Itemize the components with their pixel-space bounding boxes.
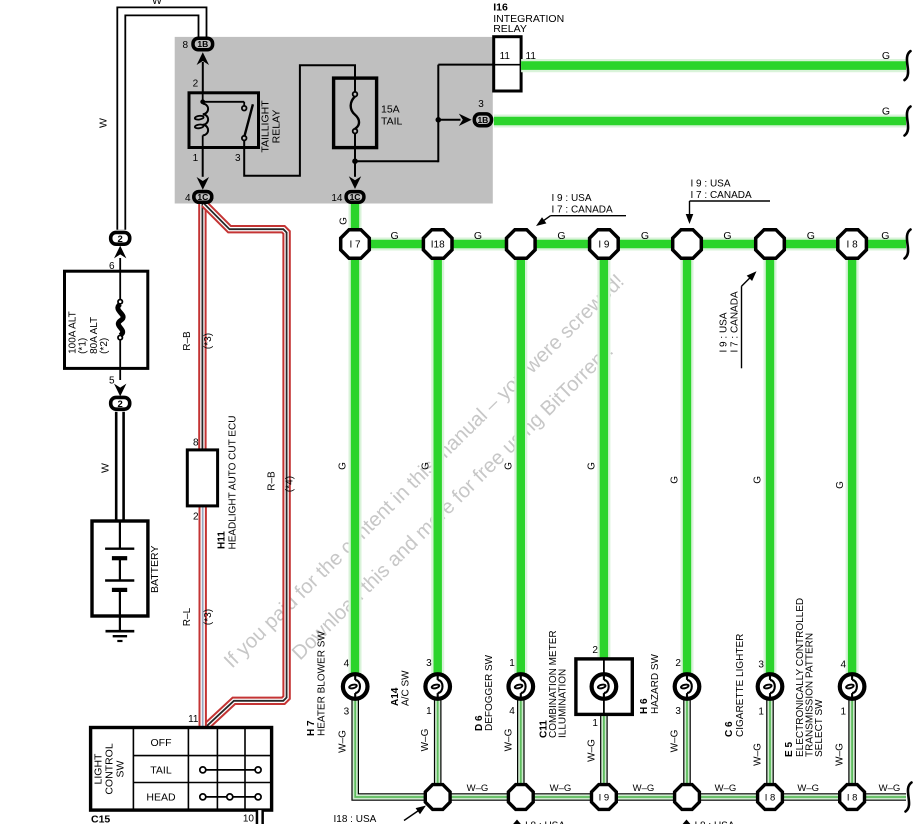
label G bus segments (top) — [391, 230, 890, 242]
svg-text:I 9 : USA: I 9 : USA — [691, 179, 731, 190]
connector octagon I 7 at x=355 (top bus) — [341, 230, 370, 259]
svg-text:W–G: W–G — [797, 783, 819, 794]
labels A/C sw A14 — [390, 670, 431, 752]
continuation squiggle bottom bus — [906, 783, 912, 812]
svg-text:W–G: W–G — [338, 730, 349, 753]
wire W-G drop column 4 — [600, 714, 608, 788]
labels defogger sw D6 — [474, 654, 514, 751]
light control sw C15 — [91, 728, 272, 811]
connector octagon I 8 at x=770 (bottom bus) — [758, 785, 783, 810]
wire pin 10 — [243, 810, 260, 824]
wire W-G drop column 7 — [848, 700, 856, 788]
svg-text:I 8: I 8 — [847, 792, 858, 803]
label pin 11 — [188, 714, 199, 725]
svg-text:(*3): (*3) — [203, 609, 214, 625]
svg-text:ILLUMINATION: ILLUMINATION — [558, 669, 569, 738]
svg-text:W–G: W–G — [467, 783, 489, 794]
svg-text:1: 1 — [193, 153, 199, 164]
svg-text:W–G: W–G — [586, 739, 597, 762]
svg-text:R–B: R–B — [182, 331, 193, 351]
svg-text:W–G: W–G — [670, 729, 681, 752]
svg-text:W: W — [152, 0, 162, 7]
svg-text:3: 3 — [478, 99, 484, 110]
wire G vertical to hazard sw — [681, 244, 694, 673]
svg-text:W–G: W–G — [835, 743, 846, 766]
svg-text:G: G — [670, 476, 681, 484]
wire G vertical I9 to combination meter — [597, 244, 610, 660]
svg-text:C 6: C 6 — [724, 721, 735, 737]
svg-text:G: G — [882, 50, 890, 62]
svg-text:15A: 15A — [381, 103, 400, 115]
annotation I9 USA / I7 CANADA (octagon 3) — [536, 193, 626, 226]
integration relay I16 — [493, 2, 564, 92]
svg-text:I 7 : CANADA: I 7 : CANADA — [691, 190, 752, 201]
wire G vertical I18 to A/C sw — [431, 244, 444, 673]
svg-text:G: G — [338, 217, 349, 225]
connector 1B pin 3 — [474, 99, 491, 126]
svg-text:HEADLIGHT AUTO CUT ECU: HEADLIGHT AUTO CUT ECU — [228, 416, 239, 550]
lamp heater blower sw H7 — [343, 659, 368, 718]
svg-text:3: 3 — [426, 658, 432, 669]
label C15 — [91, 814, 110, 824]
wire pin 6 to fusible link — [109, 246, 126, 272]
label G on vertical 1 — [338, 462, 349, 470]
svg-text:RELAY: RELAY — [271, 110, 283, 144]
battery — [92, 521, 161, 616]
svg-text:3: 3 — [675, 706, 681, 717]
svg-text:G: G — [641, 230, 649, 242]
svg-text:SELECT SW: SELECT SW — [814, 699, 825, 757]
svg-text:I 7 : CANADA: I 7 : CANADA — [552, 205, 613, 216]
svg-text:I 7 : CANADA: I 7 : CANADA — [730, 291, 741, 352]
svg-text:2: 2 — [675, 658, 681, 669]
wire W (connector 2 to battery) — [100, 412, 120, 521]
labels combination meter illumination C11 — [539, 630, 598, 761]
svg-text:W: W — [98, 118, 110, 128]
svg-text:11: 11 — [188, 714, 199, 725]
svg-text:TAIL: TAIL — [381, 115, 403, 127]
annotation I8 USA (right, clipped) — [682, 820, 735, 824]
svg-text:HAZARD SW: HAZARD SW — [650, 653, 661, 714]
wire fuse junction to integration relay pin 11 — [355, 65, 494, 163]
connector 1B pin 8 — [182, 38, 212, 51]
fusible link 100A ALT — [65, 271, 148, 368]
wire G vertical I8 to pattern select sw — [846, 244, 859, 673]
wire W-G drop column 6 — [766, 700, 774, 788]
svg-text:TAIL: TAIL — [150, 764, 172, 776]
svg-text:(*2): (*2) — [99, 338, 110, 354]
label G on vertical 4 — [587, 462, 598, 470]
wire W (alternator to connector 1B) — [98, 0, 203, 230]
svg-text:I 8: I 8 — [765, 792, 776, 803]
svg-text:3: 3 — [758, 660, 764, 671]
svg-text:SW: SW — [115, 760, 127, 777]
svg-text:HEATER BLOWER SW: HEATER BLOWER SW — [317, 631, 328, 736]
wire G from connector 1B pin 3 — [494, 105, 911, 135]
connector 2 (lower) — [111, 397, 130, 410]
svg-text:I 8 : USA: I 8 : USA — [695, 821, 735, 824]
labels ECT pattern select sw E5 — [784, 598, 846, 766]
svg-text:14: 14 — [331, 193, 343, 204]
svg-text:(*4): (*4) — [285, 476, 296, 492]
labels cigarette lighter C6 — [724, 634, 764, 766]
fuse 15A TAIL — [334, 78, 403, 148]
light control sw TAIL contacts — [200, 767, 261, 773]
svg-text:I18 : USA: I18 : USA — [334, 814, 377, 824]
svg-text:R–L: R–L — [182, 607, 193, 626]
label G on vertical 3 — [504, 462, 515, 470]
connector 1C pin 14 — [331, 192, 364, 204]
lamp hazard sw H6 — [675, 658, 700, 717]
svg-text:4: 4 — [841, 660, 847, 671]
svg-text:I 8 : USA: I 8 : USA — [525, 821, 565, 824]
arrow and connector 1C pin 4 shape — [194, 177, 212, 202]
svg-text:OFF: OFF — [151, 737, 172, 749]
annotation I18 USA — [334, 806, 427, 824]
svg-text:G: G — [807, 230, 815, 242]
lamp A/C sw A14 — [425, 658, 450, 717]
svg-text:11: 11 — [500, 51, 511, 62]
headlight auto cut ECU H11 — [187, 416, 238, 550]
svg-text:C15: C15 — [91, 814, 110, 824]
svg-text:3: 3 — [235, 153, 241, 164]
combination meter illumination C11 box — [576, 659, 632, 715]
svg-text:HEAD: HEAD — [146, 792, 176, 804]
connector octagon I18 at x=437 (top bus) — [423, 230, 452, 259]
wire 1B to relay pin 2 — [197, 52, 209, 93]
svg-text:G: G — [723, 230, 731, 242]
wire R-B (*3) 1C to headlight auto cut ECU — [182, 203, 214, 451]
svg-text:G: G — [504, 462, 515, 470]
label G on vertical 6 — [753, 476, 764, 484]
connector octagon unnamed at x=687 (top bus) — [673, 230, 702, 259]
connector octagon I 9 at x=603 (top bus) — [590, 230, 619, 259]
wire G vertical to defogger sw — [514, 244, 527, 673]
annotation I9 USA / I7 CANADA (octagon 5) — [686, 179, 770, 225]
svg-text:H11: H11 — [217, 531, 228, 549]
wire G vertical 1C-14 to I7 to heater blower sw — [349, 204, 362, 673]
labels heater blower sw H7 — [306, 631, 349, 753]
lamp defogger sw D6 — [509, 658, 534, 717]
svg-text:1: 1 — [592, 718, 598, 729]
wire G taillight fuse bus (top) — [355, 238, 906, 251]
svg-text:I 7: I 7 — [349, 239, 361, 250]
wire relay pin 1 to 1C — [202, 148, 204, 177]
ground (battery) — [106, 616, 135, 641]
svg-text:2: 2 — [193, 79, 199, 90]
lamp ECT pattern select sw E5 — [840, 660, 865, 718]
svg-text:8: 8 — [193, 438, 199, 449]
wire G from integration relay pin 11 — [521, 50, 910, 80]
svg-text:W–G: W–G — [753, 743, 764, 766]
wire to connector 1B pin 3 — [438, 119, 460, 121]
connector octagon I 9 at x=603 (bottom bus) — [592, 785, 617, 810]
label W-G bus segments (bottom) — [467, 783, 901, 794]
svg-text:W–G: W–G — [633, 783, 655, 794]
svg-text:G: G — [753, 476, 764, 484]
lamp cigarette lighter C6 — [758, 660, 783, 718]
svg-text:1B: 1B — [197, 39, 208, 49]
wire R-L (*3) ECU to light control sw — [182, 505, 214, 728]
label G on vertical 5 — [670, 476, 681, 484]
relay switch — [203, 102, 253, 141]
svg-text:I 9: I 9 — [598, 239, 610, 250]
svg-text:1B: 1B — [477, 115, 488, 125]
svg-text:1C: 1C — [350, 192, 361, 202]
svg-text:1C: 1C — [197, 192, 208, 202]
connector octagon unnamed at x=437 (bottom bus) — [425, 785, 450, 810]
wire W-G drop column 2 — [434, 700, 442, 788]
svg-text:2: 2 — [193, 512, 199, 523]
svg-text:2: 2 — [118, 399, 123, 410]
svg-text:1: 1 — [758, 706, 764, 717]
svg-text:G: G — [881, 230, 889, 242]
connector octagon I 8 at x=852 (bottom bus) — [840, 785, 865, 810]
svg-text:W–G: W–G — [420, 728, 431, 751]
svg-text:W–G: W–G — [715, 783, 737, 794]
svg-text:DEFOGGER SW: DEFOGGER SW — [484, 654, 495, 731]
svg-text:G: G — [557, 230, 565, 242]
svg-text:1: 1 — [426, 706, 432, 717]
annotation I8 USA (left, clipped) — [513, 820, 566, 824]
svg-text:5: 5 — [109, 376, 115, 387]
wire fuse to 1C / junction — [352, 133, 358, 176]
label G on vertical 7 — [835, 481, 846, 489]
wire R-B (*4) 1C to light control sw pin 11 — [204, 204, 295, 728]
svg-text:1: 1 — [509, 658, 515, 669]
arrow into 1B — [459, 114, 472, 126]
svg-text:G: G — [835, 481, 846, 489]
label G on vertical 2 — [420, 462, 431, 470]
svg-text:W–G: W–G — [550, 783, 572, 794]
connector 1C pin 4 labels — [185, 192, 208, 204]
svg-text:8: 8 — [182, 40, 188, 51]
continuation squiggle top bus — [905, 230, 911, 259]
wire W-G drop column 3 — [517, 700, 525, 788]
svg-text:1: 1 — [841, 706, 847, 717]
wire relay pin 3 to fuse — [244, 65, 355, 176]
label G above I7 — [338, 217, 349, 225]
svg-text:I 8: I 8 — [847, 239, 859, 250]
svg-text:4: 4 — [185, 193, 191, 204]
taillight relay — [189, 79, 283, 165]
wire W-G heater blower sw to bus — [355, 700, 906, 797]
light control sw HEAD contacts — [200, 794, 261, 800]
connector 2 (upper) — [111, 232, 130, 245]
wire W-G drop column 5 — [683, 700, 691, 788]
svg-text:(*1): (*1) — [78, 338, 89, 354]
svg-text:I18: I18 — [431, 239, 445, 250]
svg-text:2: 2 — [592, 645, 598, 656]
svg-text:BATTERY: BATTERY — [149, 546, 161, 593]
labels hazard sw H6 — [639, 653, 681, 752]
connector 1C pin 4 oval — [194, 192, 212, 203]
svg-text:G: G — [587, 462, 598, 470]
wire pin 5 to connector 2 — [109, 368, 126, 396]
gray relay panel — [175, 37, 493, 204]
svg-text:(*3): (*3) — [203, 333, 214, 349]
svg-text:G: G — [391, 230, 399, 242]
wire G vertical to cigarette lighter — [764, 244, 777, 673]
svg-text:4: 4 — [344, 659, 350, 670]
svg-text:I 9: I 9 — [599, 792, 610, 803]
connector octagon unnamed at x=520 (bottom bus) — [508, 785, 533, 810]
connector octagon unnamed at x=520 (top bus) — [507, 230, 536, 259]
svg-text:G: G — [420, 462, 431, 470]
svg-text:I16: I16 — [493, 2, 508, 14]
svg-text:I 9 : USA: I 9 : USA — [719, 312, 730, 352]
svg-text:G: G — [882, 105, 890, 117]
svg-text:H 6: H 6 — [639, 698, 650, 714]
svg-text:G: G — [338, 462, 349, 470]
svg-text:4: 4 — [509, 706, 515, 717]
connector octagon I 8 at x=852 (top bus) — [838, 230, 867, 259]
svg-text:10: 10 — [243, 814, 255, 824]
svg-text:W: W — [100, 463, 112, 473]
connector octagon unnamed at x=687 (bottom bus) — [675, 785, 700, 810]
svg-text:H 7: H 7 — [306, 720, 317, 736]
svg-text:W–G: W–G — [503, 728, 514, 751]
arrow into 1C pin 14 — [349, 176, 361, 189]
annotation I9 USA / I7 CANADA (octagon 6, vertical) — [719, 271, 757, 368]
svg-text:G: G — [474, 230, 482, 242]
svg-text:A14: A14 — [390, 687, 401, 706]
svg-text:CIGARETTE LIGHTER: CIGARETTE LIGHTER — [735, 634, 746, 737]
connector octagon unnamed at x=770 (top bus) — [756, 230, 785, 259]
svg-text:2: 2 — [118, 234, 123, 245]
svg-text:W–G: W–G — [879, 783, 901, 794]
svg-text:3: 3 — [344, 707, 350, 718]
svg-text:R–B: R–B — [267, 471, 278, 491]
relay coil — [195, 93, 209, 148]
lamp combination meter illumination C11 — [592, 645, 617, 729]
svg-text:I 9 : USA: I 9 : USA — [552, 193, 592, 204]
svg-text:RELAY: RELAY — [493, 23, 527, 35]
svg-text:A/C SW: A/C SW — [401, 670, 412, 706]
svg-text:E 5: E 5 — [784, 742, 795, 757]
